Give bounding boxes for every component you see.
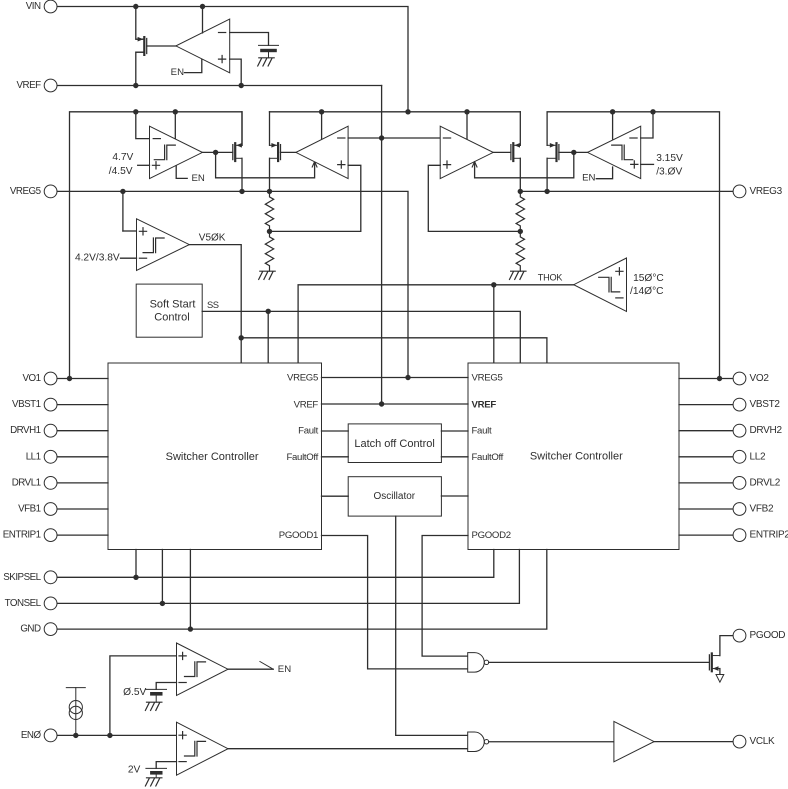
svg-text:3.15V: 3.15V [656, 153, 683, 164]
U3 + label [338, 161, 345, 168]
junction VREG3 / Q3 drain [518, 189, 523, 194]
svg-text:PGOOD: PGOOD [750, 630, 786, 641]
svg-text:Oscillator: Oscillator [373, 491, 415, 502]
pin VCLK [733, 735, 775, 748]
svg-text:FaultOff: FaultOff [286, 452, 318, 463]
svg-text:VFB1: VFB1 [18, 504, 41, 515]
resistor R3 (VREG3 divider upper) [516, 191, 524, 231]
pin DRVL2 [733, 477, 781, 490]
junction VREF / U0 feedback [239, 83, 244, 88]
U3 - label [338, 137, 345, 139]
wire pin DRVH1 to U7 [57, 430, 108, 432]
junction SKIPSEL / SC1 riser [133, 575, 138, 580]
wire U2 output tap to U4 enable [475, 152, 574, 177]
ground below C1 [258, 58, 275, 66]
svg-text:VREG5: VREG5 [472, 373, 503, 384]
node divider tap right [518, 229, 523, 234]
junction VREG5 / U5 + riser [120, 189, 125, 194]
svg-text:Switcher Controller: Switcher Controller [166, 451, 259, 463]
wire pin ENTRIP1 to U7 [57, 534, 108, 536]
svg-text:VREG5: VREG5 [287, 373, 318, 384]
hysteresis symbol in U5 [143, 238, 164, 253]
node divider tap left [267, 229, 272, 234]
op-amp U0 VREF regulator [176, 19, 230, 73]
junction VO1 / rail1 riser [67, 376, 72, 381]
wire VIN rail to error-amp supply riser [57, 7, 408, 112]
wire U4 supply riser [466, 112, 468, 139]
svg-text:TONSEL: TONSEL [5, 598, 42, 609]
junction TONSEL / SC1 riser [160, 601, 165, 606]
wire GND line [57, 550, 547, 630]
U6 + label [616, 268, 623, 275]
U10 + label [179, 732, 186, 739]
wire V50K to SC2 [241, 338, 547, 363]
arrowhead U3 enable [312, 162, 317, 167]
svg-text:LL1: LL1 [26, 451, 41, 462]
wire Q2 bottom lead riser to VREG5 [269, 158, 271, 191]
svg-text:Switcher Controller: Switcher Controller [530, 451, 623, 463]
wire EN0 riser to U9 + [110, 656, 177, 736]
svg-text:VREF: VREF [16, 80, 41, 91]
svg-text:/3.ØV: /3.ØV [656, 167, 682, 178]
U4 + label [443, 161, 450, 168]
ground below 2V ref [145, 778, 162, 786]
wire U10 - to 2V ref [156, 762, 176, 769]
wire U1 + threshold stub [138, 164, 150, 166]
pin GND [20, 623, 57, 636]
pin VREF [16, 79, 57, 92]
resistor R1 (VREG5 divider upper) [265, 191, 273, 231]
wire Q0 source riser from VIN [136, 7, 145, 40]
junction U1 output tap [213, 150, 218, 155]
junction rail1 / U1 supply riser [173, 109, 178, 114]
wire pin VFB1 to U7 [57, 508, 108, 510]
wire THOK to SC2 [493, 285, 495, 363]
wire pin DRVL1 to U7 [57, 482, 108, 484]
wire pin DRVL2 to U8 [679, 482, 733, 484]
U9 - label [179, 682, 186, 684]
pin VFB2 [733, 503, 774, 516]
wire Fault latch to SC2 [441, 430, 468, 432]
error amplifier U3 (VREG5) [296, 126, 348, 178]
pin DRVH2 [733, 424, 782, 437]
svg-text:VIN: VIN [26, 1, 41, 12]
wire U1 supply riser [174, 112, 176, 139]
ground below R2 [259, 271, 276, 279]
wire SS signal [202, 311, 520, 363]
reference source 0.5V [146, 689, 167, 702]
pin VBST2 [733, 398, 780, 411]
wire G1 output to Q5 gate [489, 661, 710, 663]
wire SS to SC1 [267, 311, 269, 363]
svg-text:VCLK: VCLK [750, 736, 776, 747]
U2 - label [630, 137, 637, 139]
wire Q5 source to ground [719, 669, 721, 675]
wire Q4 gate from U2 output [559, 151, 588, 153]
pin VO1 [22, 372, 57, 385]
wire oscillator to SC2 [441, 495, 468, 497]
svg-text:VBST2: VBST2 [750, 399, 781, 410]
junction VREG5 bus / interconnect [405, 375, 410, 380]
svg-text:DRVL2: DRVL2 [750, 477, 781, 488]
svg-text:ENØ: ENØ [21, 730, 42, 741]
hysteresis symbol in U2 [612, 145, 633, 160]
svg-text:4.2V/3.8V: 4.2V/3.8V [75, 253, 120, 264]
wire U1 - input riser [136, 112, 150, 139]
U2 + label [631, 161, 638, 168]
svg-text:EN: EN [192, 173, 205, 184]
U6 - label [616, 297, 623, 299]
svg-text:ENTRIP1: ENTRIP1 [3, 530, 41, 541]
wire FaultOff latch to SC2 [441, 456, 468, 458]
junction rail2 / U3 supply riser [319, 109, 324, 114]
wire pin DRVH2 to U8 [679, 430, 733, 432]
junction U2 output tap [571, 150, 576, 155]
wire EN0 line [57, 734, 177, 736]
pin VFB1 [18, 503, 57, 516]
wire pin VO2 to U8 [679, 378, 733, 380]
svg-text:/14Ø°C: /14Ø°C [630, 286, 664, 297]
junction GND / SC1 riser [188, 626, 193, 631]
pin LL2 [733, 450, 766, 463]
wire SKIPSEL line [57, 550, 494, 578]
comparator U9 0.5V hysteresis [177, 643, 229, 695]
buffer U11 VCLK driver [614, 721, 654, 761]
wire pin VBST2 to U8 [679, 404, 733, 406]
junction VREG3 / Q4 drain [544, 189, 549, 194]
wire U3 supply riser [321, 112, 323, 139]
resistor R4 (VREG3 divider lower) [516, 231, 524, 271]
wire Q2 top lead riser to rail2 [269, 112, 271, 146]
wire U1 output tap to U3 enable [216, 152, 315, 177]
wire rail4 from Q4 to VO2 riser [547, 112, 719, 379]
junction THOK branch [491, 282, 496, 287]
wire SKIPSEL riser to SC1 [135, 550, 137, 578]
svg-text:VO1: VO1 [22, 373, 40, 384]
wire EN stub of U1 [176, 166, 187, 179]
inverter bubble of G2 [484, 740, 488, 744]
pin TONSEL [5, 597, 57, 610]
wire pin ENTRIP2 to U8 [679, 534, 733, 536]
wire pin VFB2 to U8 [679, 508, 733, 510]
junction VREF bus / error-amp - line [379, 135, 384, 140]
pin VREG3 [733, 185, 783, 198]
svg-text:PGOOD2: PGOOD2 [472, 530, 511, 541]
wire TONSEL line [57, 550, 519, 604]
wire U0 output to Q0 gate [147, 45, 176, 47]
svg-text:15Ø°C: 15Ø°C [633, 273, 664, 284]
pin LL1 [26, 450, 57, 463]
pin DRVL1 [12, 477, 57, 490]
pin DRVH1 [10, 424, 57, 437]
wire Q4 bottom lead riser to VREG3 [546, 158, 548, 191]
wire U2 + threshold stub [641, 163, 654, 165]
pin VIN [26, 0, 57, 13]
wire EN stub of U2 [596, 167, 612, 179]
junction rail2 / U4 supply riser [464, 109, 469, 114]
transistor Q3 pass PMOS [511, 143, 520, 161]
junction VREG5 / divider R1 [267, 189, 272, 194]
hysteresis symbol in U6 [599, 277, 620, 292]
block Soft Start Control [136, 284, 202, 337]
ground below 0.5V ref [145, 702, 162, 710]
block Oscillator [348, 477, 441, 516]
wire U9 output EN [228, 668, 273, 670]
pin VO2 [733, 372, 769, 385]
junction VREG5 / Q1 drain [239, 189, 244, 194]
wire THOK signal [298, 285, 574, 363]
hysteresis symbol in U9 [185, 662, 206, 677]
wire Q5 drain to PGOOD pin [720, 636, 733, 656]
junction VIN / Q0 source riser [133, 4, 138, 9]
nand gate G2 (VCLK) [468, 732, 485, 752]
nand gate G1 (PGOOD) [468, 653, 485, 673]
wire Fault SC1 to latch [322, 430, 349, 432]
comparator U1 4.7V/4.5V hysteresis [150, 126, 203, 178]
wire oscillator clock to NAND2 [396, 516, 468, 735]
wire pin LL1 to U7 [57, 456, 108, 458]
block U8 Switcher Controller 2 [468, 363, 679, 550]
wire U1 output to Q1 gate [202, 151, 232, 153]
svg-text:FaultOff: FaultOff [472, 452, 504, 463]
svg-text:GND: GND [20, 624, 41, 635]
capacitor C1 [259, 45, 279, 57]
svg-text:Control: Control [154, 311, 189, 323]
svg-text:Ø.5V: Ø.5V [123, 687, 146, 698]
wire PGOOD1 to NAND1 [322, 536, 468, 669]
wire Q3 top lead riser to rail2 [519, 112, 521, 146]
svg-text:SKIPSEL: SKIPSEL [3, 572, 41, 583]
block U7 Switcher Controller 1 [108, 363, 322, 550]
wire U0 - input to capacitor C1 [230, 33, 269, 46]
svg-text:EN: EN [171, 67, 184, 78]
wire FaultOff SC1 to latch [322, 456, 349, 458]
wire U4 output to Q3 gate [493, 151, 511, 153]
wire GND riser to SC1 [189, 550, 191, 630]
wire VREG3 line [520, 190, 733, 192]
block Latch off Control [348, 424, 441, 463]
wire Q1 bottom lead riser to VREG5 [241, 158, 243, 191]
wire G2 output to buffer [489, 741, 614, 743]
arrowhead U4 enable [472, 162, 477, 167]
svg-text:VFB2: VFB2 [750, 504, 775, 515]
svg-text:LL2: LL2 [750, 451, 767, 462]
wire U0 + input feedback to VREF [230, 59, 242, 85]
hysteresis symbol in U10 [185, 741, 206, 756]
svg-text:Fault: Fault [472, 426, 492, 437]
svg-text:SS: SS [207, 299, 219, 310]
U5 - label [139, 257, 146, 259]
svg-text:VREG3: VREG3 [750, 186, 783, 197]
wire U4 + feedback to divider tap [428, 165, 520, 231]
junction rail4 / U2 supply riser [610, 109, 615, 114]
junction VREF bus / interconnect [379, 401, 384, 406]
wire pin VBST1 to U7 [57, 404, 108, 406]
signal ground below Q5 [716, 675, 724, 683]
junction rail2 / VIN riser [405, 109, 410, 114]
U0 inverting input label [219, 32, 226, 34]
svg-text:PGOOD1: PGOOD1 [279, 530, 318, 541]
svg-text:4.7V: 4.7V [112, 152, 133, 163]
wire U5 + input [123, 230, 137, 232]
U0 non-inverting input label [219, 56, 226, 63]
svg-text:DRVH1: DRVH1 [10, 425, 41, 436]
U5 + label [139, 228, 146, 235]
wire Q1 top lead riser to rail1 [241, 112, 243, 146]
junction EN0 / U9 riser [107, 733, 112, 738]
pin PGOOD [733, 629, 785, 642]
svg-text:THOK: THOK [538, 273, 563, 283]
svg-text:2V: 2V [128, 764, 141, 775]
wire TONSEL riser to SC1 [161, 550, 163, 604]
wire pin LL2 to U8 [679, 456, 733, 458]
svg-text:EN: EN [278, 664, 291, 675]
wire U9 - to 0.5V ref [156, 683, 176, 690]
wire rail2 VIN-fed amp rail [270, 111, 521, 113]
wire VREG5 interconnect [322, 377, 469, 379]
comparator U10 2V hysteresis [177, 722, 229, 775]
pin ENTRIP1 [3, 529, 57, 542]
U1 + label [152, 162, 159, 169]
svg-text:Soft Start: Soft Start [150, 299, 196, 311]
wire Q3 bottom lead riser to VREG3 [519, 158, 521, 191]
svg-text:V5ØK: V5ØK [199, 233, 226, 244]
wire VREG5 line [57, 191, 408, 377]
inverter bubble of G1 [484, 660, 488, 664]
wire buffer output to VCLK pin [654, 741, 733, 743]
svg-text:VREG5: VREG5 [10, 186, 42, 197]
transistor Q0 pass PMOS [136, 37, 147, 55]
transistor Q1 pass PMOS [233, 143, 242, 161]
junction rail1 / U1 - riser [133, 109, 138, 114]
wire VREF vertical bus [381, 86, 383, 405]
wire U0 supply riser from VIN [202, 7, 204, 33]
svg-text:Fault: Fault [298, 426, 318, 437]
wire U5 + riser from VREG5 [122, 191, 124, 231]
wire U3 + feedback to divider tap [270, 165, 361, 231]
resistor R2 (VREG5 divider lower) [265, 231, 273, 271]
pin EN0 [21, 729, 57, 742]
U1 - label [153, 138, 160, 140]
comparator U5 4.2V/3.8V UVLO [137, 219, 190, 271]
U9 + label [179, 652, 186, 659]
hysteresis symbol in U1 [154, 145, 175, 160]
pin SKIPSEL [3, 571, 57, 584]
wire Q2 gate from U3 output [281, 151, 296, 153]
error amplifier U4 (VREG3) [440, 126, 493, 178]
svg-text:ENTRIP2: ENTRIP2 [750, 530, 788, 541]
comparator U2 3.15V/3.0V hysteresis [588, 126, 641, 178]
transistor Q4 pass PMOS [547, 143, 559, 161]
junction VREF / Q0 drain [133, 83, 138, 88]
junction EN0 / current source [73, 733, 78, 738]
wire EN stub of U0 [185, 60, 202, 73]
junction VO2 / rail4 riser [717, 376, 722, 381]
signal flag EN [260, 662, 273, 670]
svg-text:DRVH2: DRVH2 [750, 425, 783, 436]
reference source 2V [146, 768, 167, 777]
svg-text:VREF: VREF [294, 399, 319, 410]
junction VIN / U0 supply riser [200, 4, 205, 9]
current source I1 on EN0 [66, 688, 85, 736]
junction rail4 / U2 - riser [650, 109, 655, 114]
junction SS branch [266, 309, 271, 314]
wire U2 - input riser [641, 112, 653, 138]
svg-text:/4.5V: /4.5V [109, 166, 133, 177]
wire V50K signal [189, 245, 241, 363]
svg-text:Latch off Control: Latch off Control [354, 438, 435, 450]
wire PGOOD2 to NAND1 [422, 536, 468, 657]
U4 - label [443, 137, 450, 139]
junction V50K branch [239, 335, 244, 340]
ground below R4 [510, 271, 527, 279]
svg-text:VO2: VO2 [750, 373, 770, 384]
wire U5 - threshold stub [121, 257, 137, 259]
wire VREF line [57, 85, 382, 87]
wire Q0 drain riser to VREF [136, 52, 145, 85]
comparator U6 thermal 150C/140C [574, 258, 627, 311]
pin ENTRIP2 [733, 529, 788, 542]
svg-text:DRVL1: DRVL1 [12, 477, 41, 488]
wire U2 supply riser [612, 112, 614, 139]
wire VREF interconnect [322, 403, 469, 405]
svg-text:VBST1: VBST1 [12, 399, 41, 410]
wire pin VO1 to U7 [57, 378, 108, 380]
svg-text:VREF: VREF [472, 399, 497, 410]
pin VREG5 [10, 185, 57, 198]
wire error-amp - inputs to VREF [348, 137, 440, 139]
wire oscillator to SC1 [322, 495, 349, 497]
wire U10 output to NAND2 [228, 748, 468, 750]
U10 - label [179, 761, 186, 763]
wire rail1 from VO1 riser [70, 112, 243, 379]
svg-text:EN: EN [582, 173, 595, 184]
pin VBST1 [12, 398, 57, 411]
transistor Q5 PGOOD open drain [709, 653, 720, 671]
transistor Q2 pass PMOS [270, 143, 281, 161]
